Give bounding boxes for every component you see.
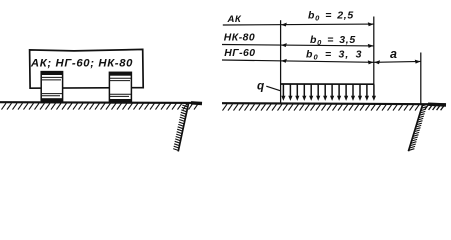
svg-text:НК-80: НК-80 — [224, 33, 255, 44]
dimension line b0 НК-80 — [222, 45, 374, 46]
arrowhead left (a line) — [374, 60, 380, 64]
ground hatching (left figure) — [2, 103, 199, 109]
dimension line b0 НГ-60 continuing as a — [222, 60, 421, 62]
svg-text:b0 = 2,5: b0 = 2,5 — [308, 10, 354, 23]
arrowhead left (line 3) — [281, 59, 287, 63]
ground line (right figure) — [222, 103, 446, 104]
svg-text:a: a — [390, 47, 397, 61]
arrowhead left (line 1) — [281, 23, 287, 27]
right wheel — [109, 72, 131, 103]
svg-text:НГ-60: НГ-60 — [224, 48, 255, 59]
trench slope (right figure) — [408, 105, 422, 151]
svg-text:b0 = 3,5: b0 = 3,5 — [310, 34, 356, 47]
distributed load top line — [281, 83, 375, 85]
extension line right (x=373.8) — [373, 17, 375, 85]
svg-text:АК; НГ-60; НК-80: АК; НГ-60; НК-80 — [30, 58, 133, 70]
svg-text:АК: АК — [227, 14, 242, 25]
extension line far right (x=420.8) — [420, 53, 422, 105]
extension line left (x=280.6) — [280, 20, 282, 103]
arrowhead right (line 2) — [368, 44, 374, 48]
load arrows q — [282, 84, 284, 96]
left wheel — [41, 72, 62, 102]
arrowhead right (a line) — [415, 60, 421, 64]
arrowhead right (line 3) — [368, 60, 374, 64]
trench slope (left figure) — [178, 104, 188, 152]
arrowhead left (line 2) — [281, 43, 287, 47]
dimension line b0 АК — [223, 23, 374, 26]
ground line (left figure) — [0, 101, 202, 104]
ground hatching (right figure) — [223, 104, 420, 110]
svg-text:q: q — [257, 78, 264, 92]
vehicle body box — [30, 49, 144, 88]
ground corner comb (right figure) — [425, 105, 444, 110]
q leader line — [266, 86, 280, 91]
arrowhead right (line 1) — [368, 22, 374, 26]
